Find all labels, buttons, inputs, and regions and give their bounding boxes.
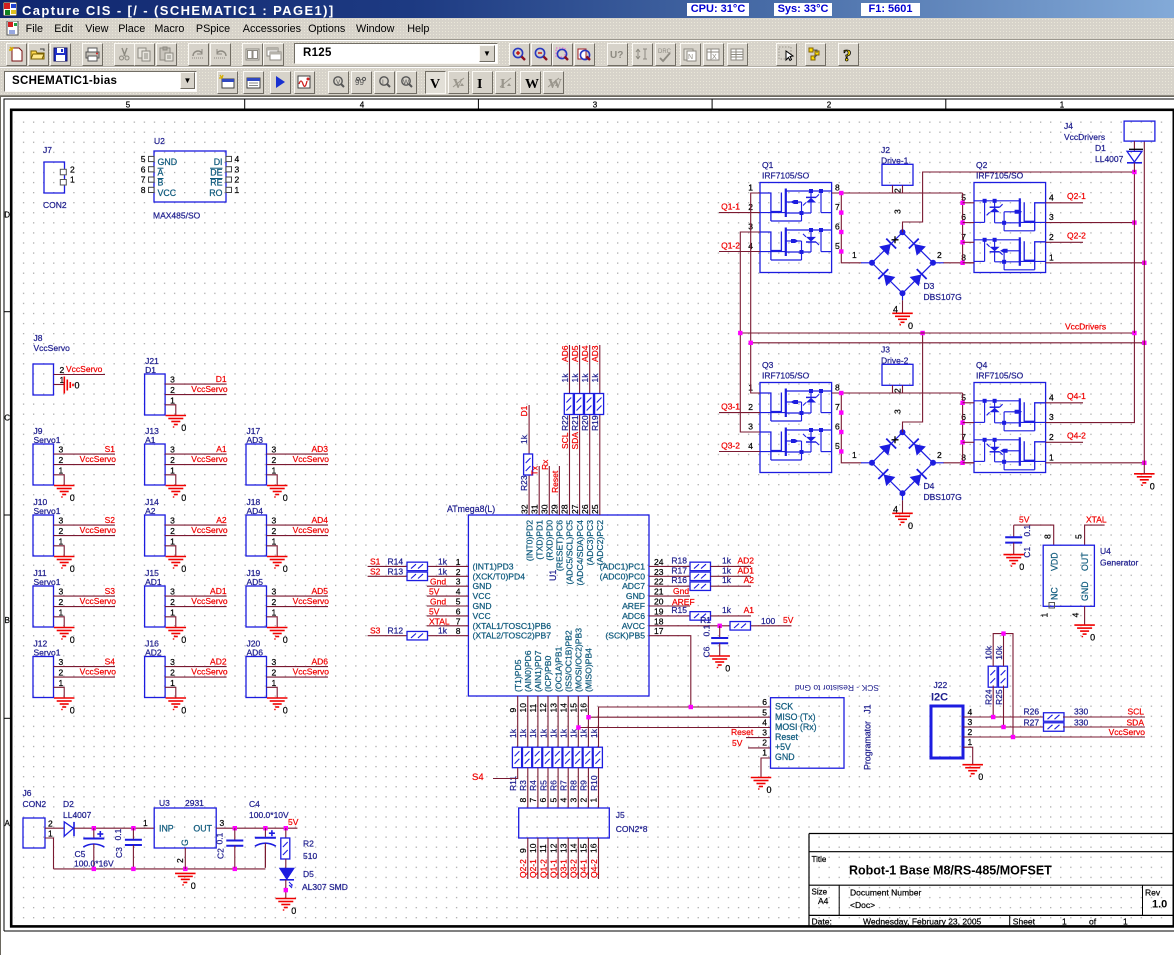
svg-text:Q3-1: Q3-1 <box>559 859 569 878</box>
J7 pin squares <box>60 169 66 175</box>
connector J16 <box>145 657 166 698</box>
svg-text:J4: J4 <box>1064 121 1073 131</box>
svg-text:(XCK/T0)PD4: (XCK/T0)PD4 <box>473 571 526 581</box>
svg-text:1: 1 <box>852 250 857 260</box>
resistor R17 <box>690 572 711 581</box>
J13 pin 2 wire <box>165 464 227 466</box>
svg-text:ATmega8(L): ATmega8(L) <box>447 504 495 514</box>
Q4 pin 8 stub <box>963 462 974 464</box>
svg-text:12: 12 <box>548 843 558 853</box>
svg-text:3: 3 <box>1049 212 1054 222</box>
svg-text:2: 2 <box>170 385 175 395</box>
svg-text:25: 25 <box>590 504 600 514</box>
svg-text:X: X <box>712 54 717 61</box>
J21 pin 3 wire <box>165 383 227 385</box>
svg-text:1k: 1k <box>560 373 570 383</box>
wire S2 to U1 pin 2 <box>368 575 469 577</box>
wire R24 bottom to pin4 <box>992 686 994 718</box>
resistor R25 pullup <box>999 666 1008 687</box>
svg-text:7: 7 <box>528 798 538 803</box>
svg-text:1: 1 <box>1040 613 1050 618</box>
svg-text:AD4: AD4 <box>311 515 328 525</box>
J15 pin 2 wire <box>165 606 227 608</box>
wire bridge pin2 to right transistor pin 8 <box>944 262 975 264</box>
svg-text:AREF: AREF <box>622 601 645 611</box>
svg-text:1: 1 <box>1049 252 1054 262</box>
svg-text:Q4-2: Q4-2 <box>589 859 599 878</box>
svg-text:2: 2 <box>170 668 175 678</box>
svg-text:A2: A2 <box>216 515 227 525</box>
junction dots on phase node <box>839 191 843 195</box>
wire R15 to net A1 <box>711 615 752 617</box>
wire R11 to S4 <box>493 768 518 779</box>
svg-text:VCC: VCC <box>158 188 177 198</box>
svg-text:I: I <box>382 79 384 86</box>
J12 pin 3 wire <box>54 666 116 668</box>
schematic selector combo SCHEMATIC1-bias <box>4 71 197 92</box>
resistor R27 <box>1044 723 1065 732</box>
junction dots on phase node <box>839 391 843 395</box>
svg-text:Q3-2: Q3-2 <box>721 441 740 451</box>
Q4 pin 5 stub <box>963 402 974 404</box>
junction rail VccDrivers at 921.6 <box>920 331 924 335</box>
svg-text:5V: 5V <box>288 817 299 827</box>
Q4 pin 7 stub <box>963 441 974 443</box>
svg-text:1k: 1k <box>438 566 448 576</box>
svg-text:Drive-2: Drive-2 <box>881 356 909 366</box>
svg-text:9: 9 <box>518 848 528 853</box>
svg-text:3: 3 <box>968 717 973 727</box>
svg-text:Q2-2: Q2-2 <box>518 859 528 878</box>
svg-text:Servo1: Servo1 <box>34 577 61 587</box>
J21 pin 2 wire <box>165 394 227 396</box>
svg-text:5V: 5V <box>1019 515 1030 525</box>
svg-text:2: 2 <box>1049 432 1054 442</box>
svg-text:4: 4 <box>762 717 767 727</box>
wire Gnd to U1 pin 3 <box>427 585 469 587</box>
svg-text:GND: GND <box>1080 581 1090 601</box>
toolbar button print <box>82 43 103 66</box>
J9 pin 3 wire <box>54 453 116 455</box>
menu item Accessories <box>243 23 301 35</box>
svg-text:1: 1 <box>170 607 175 617</box>
J17 pin 3 wire <box>267 453 329 455</box>
svg-text:0: 0 <box>70 493 75 503</box>
svg-text:S1: S1 <box>105 444 116 454</box>
capacitor C5 electrolytic <box>93 828 95 838</box>
svg-text:A4: A4 <box>818 896 829 906</box>
svg-text:27: 27 <box>570 504 580 514</box>
wire Q2 pin 2 Q2-2 <box>1046 241 1083 243</box>
svg-text:Tx: Tx <box>530 465 540 475</box>
svg-text:DI: DI <box>214 157 223 167</box>
diode D1 LL4007 <box>1127 151 1142 162</box>
resistor R9 <box>583 747 592 768</box>
svg-text:0: 0 <box>1090 633 1095 643</box>
resistor R5 <box>543 747 552 768</box>
svg-text:AD1: AD1 <box>737 565 754 575</box>
svg-text:3: 3 <box>220 818 225 828</box>
toolbar button current probe <box>374 71 395 94</box>
svg-text:SCK - Resistor to Gnd: SCK - Resistor to Gnd <box>795 683 879 693</box>
U2 pin 1 square <box>226 187 232 192</box>
svg-text:GND: GND <box>473 581 492 591</box>
svg-text:1: 1 <box>70 175 75 185</box>
resistor R7 <box>563 747 572 768</box>
svg-text:1: 1 <box>59 607 64 617</box>
svg-text:DE: DE <box>210 167 222 177</box>
junction MISO at pin16 column <box>586 715 590 719</box>
svg-text:R7: R7 <box>559 780 569 791</box>
svg-text:U?: U? <box>610 50 623 61</box>
svg-text:R2: R2 <box>303 839 314 849</box>
connector J13 <box>145 444 166 485</box>
svg-text:2: 2 <box>59 455 64 465</box>
J12 pin 1 wire to ground <box>54 687 65 698</box>
svg-text:Q3-1: Q3-1 <box>721 402 740 412</box>
menu item Edit <box>54 23 73 35</box>
svg-text:Gnd: Gnd <box>673 586 689 596</box>
svg-text:1k: 1k <box>508 728 518 738</box>
svg-text:3: 3 <box>59 587 64 597</box>
svg-text:13: 13 <box>558 843 568 853</box>
resistor R18 <box>690 562 711 571</box>
svg-text:3: 3 <box>272 657 277 667</box>
wire U3 OUT to 5V <box>216 827 297 829</box>
svg-text:S1: S1 <box>370 556 381 566</box>
svg-text:3: 3 <box>456 577 461 587</box>
wire R27 to SDA label <box>1063 726 1145 728</box>
svg-text:4: 4 <box>1071 613 1081 618</box>
svg-text:0: 0 <box>70 635 75 645</box>
svg-text:R20: R20 <box>580 415 590 431</box>
wire R2 to D5 <box>285 859 287 868</box>
svg-text:B: B <box>158 178 164 188</box>
J20 pin 2 wire <box>267 676 329 678</box>
svg-text:AD5: AD5 <box>311 586 328 596</box>
svg-text:Rev: Rev <box>1145 888 1161 898</box>
svg-text:AVCC: AVCC <box>622 621 645 631</box>
J20 pin 1 wire to ground <box>267 687 278 698</box>
junction Q2 pin 7 <box>960 240 964 244</box>
svg-text:R27: R27 <box>1024 718 1040 728</box>
capacitor C3 <box>132 828 134 840</box>
svg-text:21: 21 <box>654 587 664 597</box>
capacitor C2 <box>234 828 236 840</box>
svg-text:0: 0 <box>181 493 186 503</box>
resistor R12 <box>407 631 428 640</box>
menu item Macro <box>154 23 184 35</box>
svg-text:2: 2 <box>893 388 903 393</box>
junction rail C2 <box>233 867 237 871</box>
svg-text:GND: GND <box>158 157 178 167</box>
svg-text:AD2: AD2 <box>210 657 227 667</box>
svg-text:0: 0 <box>908 321 913 331</box>
svg-text:VccServo: VccServo <box>191 525 228 535</box>
svg-text:R18: R18 <box>671 555 687 565</box>
wire Q2 pin 3 to VccDrivers vertical <box>1046 222 1135 224</box>
document icon <box>6 21 19 36</box>
svg-text:IRF7105/SO: IRF7105/SO <box>762 171 810 181</box>
svg-text:OUT: OUT <box>1080 552 1090 571</box>
svg-text:2: 2 <box>968 727 973 737</box>
wire U4 OUT to XTAL <box>1085 525 1105 545</box>
svg-text:LL4007: LL4007 <box>1095 154 1124 164</box>
svg-text:Q4-1: Q4-1 <box>1067 391 1086 401</box>
wire R18 to net AD2 <box>711 565 752 567</box>
svg-text:IRF7105/SO: IRF7105/SO <box>762 371 810 381</box>
J5 bottom wires <box>527 838 529 879</box>
wire J22 pin 4 SCL <box>963 716 1044 718</box>
U2 pin 5 square <box>149 156 155 161</box>
svg-text:16: 16 <box>589 843 599 853</box>
wire Q1 pin 1 down to rail 2 <box>751 193 760 343</box>
wire U1 pin 20 AREF <box>649 605 690 607</box>
svg-text:1k: 1k <box>519 434 529 444</box>
J18 pin 3 wire <box>267 524 329 526</box>
svg-text:3: 3 <box>59 445 64 455</box>
svg-text:1k: 1k <box>590 373 600 383</box>
svg-text:4: 4 <box>360 101 365 110</box>
junction Q4 pin 8 <box>960 461 964 465</box>
wire XTAL to U1 pin 7 <box>427 625 469 627</box>
J17 pin 2 wire <box>267 464 329 466</box>
svg-text:VccServo: VccServo <box>191 667 228 677</box>
svg-text:Q4: Q4 <box>976 360 988 370</box>
svg-text:AD6: AD6 <box>247 648 264 658</box>
svg-text:AD3: AD3 <box>311 444 328 454</box>
J11 pin 3 wire <box>54 595 116 597</box>
svg-text:Q2-2: Q2-2 <box>1067 230 1086 240</box>
svg-text:S3: S3 <box>105 586 116 596</box>
svg-text:1: 1 <box>170 465 175 475</box>
svg-text:1: 1 <box>272 607 277 617</box>
svg-text:12: 12 <box>538 703 548 713</box>
connector J7 <box>44 162 65 193</box>
svg-text:3: 3 <box>748 422 753 432</box>
toolbar button cut (disabled) <box>114 43 135 66</box>
junction C2 <box>233 826 237 830</box>
svg-text:0: 0 <box>181 564 186 574</box>
svg-text:0: 0 <box>75 381 80 391</box>
svg-text:C1: C1 <box>1022 547 1032 558</box>
connector J5 <box>519 808 610 838</box>
svg-text:5V: 5V <box>783 615 794 625</box>
toolbar button paste (disabled) <box>156 43 177 66</box>
svg-text:15: 15 <box>579 843 589 853</box>
svg-text:11: 11 <box>538 844 548 853</box>
resistor R10 <box>593 747 602 768</box>
svg-text:2: 2 <box>70 165 75 175</box>
menu item File <box>26 23 43 35</box>
toolbar button snap to grid <box>776 43 797 66</box>
resistor R13 <box>407 572 428 581</box>
ground symbol at programmer <box>751 777 772 779</box>
svg-text:30: 30 <box>540 504 550 514</box>
wire J22 pin 2 VccServo <box>963 736 1145 738</box>
wire D2 to U3 INP <box>74 827 154 829</box>
svg-text:1: 1 <box>748 183 753 193</box>
wire J22 pin 1 to ground <box>963 747 973 765</box>
svg-text:VccServo: VccServo <box>1109 727 1146 737</box>
J4 pin stubs <box>1133 141 1135 150</box>
wire U1 pin 32 to D1 via R23 <box>528 405 530 515</box>
J21 pin 1 wire to ground <box>165 405 176 416</box>
svg-text:C2: C2 <box>216 848 226 859</box>
svg-text:W: W <box>548 77 562 92</box>
wire C4 bottom to rail <box>264 846 266 868</box>
svg-text:0: 0 <box>908 521 913 531</box>
svg-text:2: 2 <box>762 738 767 748</box>
bridge rectifier D4 DBS107G <box>872 432 903 463</box>
J10 pin 2 wire <box>54 535 116 537</box>
svg-text:3: 3 <box>272 445 277 455</box>
J17 pin 1 wire to ground <box>267 475 278 486</box>
resistor R3 <box>523 747 532 768</box>
svg-text:C: C <box>4 414 10 423</box>
svg-text:3: 3 <box>170 587 175 597</box>
toolbar button disable power display <box>543 71 564 94</box>
svg-text:23: 23 <box>654 567 664 577</box>
combo dropdown button <box>180 72 195 89</box>
svg-text:Title: Title <box>812 855 827 864</box>
wire D1 to junction <box>1133 163 1135 172</box>
svg-text:A1: A1 <box>145 435 156 445</box>
toolbar button enable power display <box>520 71 541 94</box>
svg-text:3: 3 <box>569 798 579 803</box>
svg-text:R14: R14 <box>388 556 404 566</box>
ground symbol at D4 <box>892 512 913 514</box>
svg-text:Q1-1: Q1-1 <box>548 859 558 878</box>
svg-text:(ADC3)PC3: (ADC3)PC3 <box>585 520 595 566</box>
connector J2 Drive-1 <box>882 164 913 185</box>
svg-text:D3: D3 <box>924 281 935 291</box>
svg-text:Drive-1: Drive-1 <box>881 156 909 166</box>
svg-text:3: 3 <box>170 516 175 526</box>
svg-text:AD5: AD5 <box>247 577 264 587</box>
svg-text:G: G <box>180 839 190 846</box>
menu item Place <box>118 23 145 35</box>
toolbar row 2 <box>0 67 1174 96</box>
svg-text:1k: 1k <box>589 728 599 738</box>
svg-text:Programator J1: Programator J1 <box>863 704 873 770</box>
J2 pin 3 stub <box>902 185 904 193</box>
menu item Options <box>308 23 345 35</box>
wire D3 minus to ground <box>902 300 904 313</box>
bridge rectifier D3 DBS107G <box>872 232 903 262</box>
svg-text:R16: R16 <box>671 575 687 585</box>
svg-text:1: 1 <box>589 798 599 803</box>
svg-text:1k: 1k <box>438 626 448 636</box>
svg-text:A2: A2 <box>744 575 755 585</box>
wire R26 to SCL label <box>1063 716 1145 718</box>
ground symbol 0 at J14 <box>166 556 187 558</box>
svg-text:GND: GND <box>626 591 645 601</box>
svg-text:1: 1 <box>59 678 64 688</box>
wire Gnd to U1 pin 5 <box>427 605 469 607</box>
J3 pin 2 stub <box>892 385 894 393</box>
wire S1 to U1 pin 1 <box>368 565 469 567</box>
resistor R14 <box>407 562 428 571</box>
svg-text:2931: 2931 <box>185 798 204 808</box>
ground symbol 0 at J11 <box>54 627 74 629</box>
toolbar button zoom in <box>509 43 530 66</box>
svg-text:1: 1 <box>1049 452 1054 462</box>
Q4 lower MOSFET <box>1024 441 1045 470</box>
svg-text:Servo1: Servo1 <box>34 506 61 516</box>
svg-text:D4: D4 <box>924 481 935 491</box>
menu item PSpice <box>196 23 230 35</box>
svg-text:4: 4 <box>456 587 461 597</box>
svg-text:330: 330 <box>1074 718 1088 728</box>
svg-text:9: 9 <box>508 708 518 713</box>
svg-text:32: 32 <box>519 504 529 514</box>
svg-text:DBS107G: DBS107G <box>924 492 962 502</box>
wire Q3 pin 2 Q3-1 <box>719 412 760 414</box>
junction rail C3 <box>131 867 135 871</box>
svg-text:Document Number: Document Number <box>850 888 922 898</box>
svg-text:1: 1 <box>968 737 973 747</box>
wire Q4 pin 1 to ground node <box>1046 462 1145 464</box>
connector J22 I2C <box>931 706 963 758</box>
svg-text:0.1: 0.1 <box>702 624 712 636</box>
svg-text:2: 2 <box>59 526 64 536</box>
J13 pin 3 wire <box>165 453 227 455</box>
wire Q2 left pins vertical <box>962 193 964 263</box>
connector J18 <box>246 515 267 556</box>
svg-text:6: 6 <box>141 164 146 174</box>
junction Q2 pin 5 <box>960 201 964 205</box>
svg-text:AD1: AD1 <box>210 586 227 596</box>
wires resistor bank to J5 pins 8-1 <box>527 768 529 808</box>
wire 5V to U4 VDD <box>1014 525 1054 545</box>
ground symbol 0 at J17 <box>267 485 288 487</box>
svg-text:J8: J8 <box>34 333 43 343</box>
svg-text:(ADC2)PC2: (ADC2)PC2 <box>595 520 605 566</box>
svg-text:3: 3 <box>1049 412 1054 422</box>
svg-text:Robot-1 Base M8/RS-485/MOFSET: Robot-1 Base M8/RS-485/MOFSET <box>849 864 1052 878</box>
svg-text:5: 5 <box>762 707 767 717</box>
svg-text:0: 0 <box>283 706 288 716</box>
svg-text:0: 0 <box>767 785 772 795</box>
ground symbol under D5 <box>276 898 297 900</box>
vertical wire 1133 J4/D1 to Q4 pin 3 elbow <box>1133 172 1135 333</box>
toolbar button back annotate (disabled) <box>632 43 653 66</box>
svg-text:10: 10 <box>528 843 538 853</box>
svg-text:3: 3 <box>59 657 64 667</box>
wire ground node stub <box>1143 463 1145 474</box>
svg-text:D1: D1 <box>145 365 156 375</box>
svg-text:1k: 1k <box>569 728 579 738</box>
svg-text:AD4: AD4 <box>580 345 590 362</box>
svg-text:5: 5 <box>456 597 461 607</box>
junction R2/5V <box>284 826 288 830</box>
svg-text:R12: R12 <box>388 626 404 636</box>
Q2 pin 8 stub <box>963 262 974 264</box>
svg-text:IRF7105/SO: IRF7105/SO <box>976 371 1024 381</box>
svg-text:W: W <box>403 79 410 86</box>
transistor Q3 IRF7105/SO <box>760 383 832 473</box>
svg-text:3: 3 <box>272 516 277 526</box>
toolbar button redo (disabled) <box>210 43 231 66</box>
toolbar button current marker <box>351 71 372 94</box>
J11 pin 1 wire to ground <box>54 617 65 628</box>
resistor R22 <box>564 394 573 415</box>
J18 pin 1 wire to ground <box>267 546 278 557</box>
svg-text:J5: J5 <box>616 810 625 820</box>
wire D4 minus to ground <box>902 500 904 513</box>
svg-text:R10: R10 <box>589 775 599 791</box>
